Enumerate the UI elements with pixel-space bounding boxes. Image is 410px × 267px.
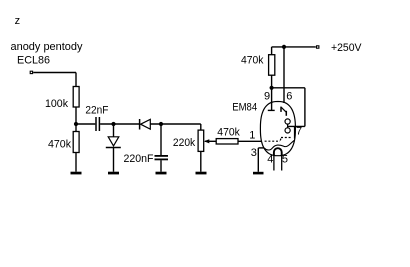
wire pin 9 grid <box>271 88 273 111</box>
potentiometer R3 220k <box>200 124 202 130</box>
input terminal <box>30 71 32 73</box>
wire bus A to C1 <box>76 123 95 125</box>
diode D1 vertical <box>113 124 115 137</box>
diode D2 horizontal <box>139 119 141 130</box>
svg-text:anody pentody: anody pentody <box>11 41 83 53</box>
node B junction <box>111 122 115 126</box>
svg-text:z: z <box>15 15 21 27</box>
cathode curve <box>264 140 294 150</box>
svg-text:5: 5 <box>282 154 288 166</box>
tube U1 envelope <box>260 102 295 156</box>
capacitor C2 220nF <box>160 124 162 155</box>
wire input horizontal <box>33 72 76 74</box>
svg-text:22nF: 22nF <box>85 105 108 117</box>
svg-text:220nF: 220nF <box>124 153 154 165</box>
target screen symbol <box>280 107 282 112</box>
ground D1 <box>108 172 119 175</box>
wire +250V rail <box>272 46 316 48</box>
wire bus C1 to D2 <box>100 123 140 125</box>
resistor R5 470k top <box>271 47 273 55</box>
svg-text:+250V: +250V <box>331 42 362 54</box>
svg-text:EM84: EM84 <box>232 102 257 114</box>
resistor R4 470k mid <box>216 139 238 144</box>
svg-text:470k: 470k <box>217 126 240 138</box>
wire 100k to bus <box>75 107 77 124</box>
resistor R2 470k left <box>75 124 77 132</box>
wire input corner down <box>75 73 77 87</box>
heater arch <box>274 148 282 155</box>
svg-text:470k: 470k <box>48 138 71 150</box>
node A junction <box>74 122 78 126</box>
wiper arrow <box>205 140 216 142</box>
ground R3 <box>196 172 207 175</box>
internal screen dashed line <box>265 140 280 142</box>
svg-text:1: 1 <box>249 130 255 142</box>
node D junction on rail <box>282 45 286 49</box>
pin 7 lead <box>294 126 296 138</box>
node E junction anode <box>270 86 274 90</box>
svg-text:7: 7 <box>296 125 302 137</box>
resistor R1 100k <box>73 87 79 108</box>
ground C2 <box>156 172 167 175</box>
heater pin 4 lead <box>273 155 275 171</box>
wire anode link <box>272 87 305 89</box>
deflection electrodes circles <box>285 119 290 124</box>
svg-text:470k: 470k <box>241 55 264 67</box>
capacitor C1 22nF <box>95 117 97 131</box>
wire pin6 drop <box>283 47 285 103</box>
ground tube <box>253 172 264 175</box>
svg-text:100k: 100k <box>45 98 68 110</box>
ground R2 <box>71 172 82 175</box>
svg-text:9: 9 <box>264 90 270 102</box>
wire D2 to node C <box>150 123 201 125</box>
svg-text:4: 4 <box>267 154 273 166</box>
svg-text:220k: 220k <box>173 137 196 149</box>
terminal +250V <box>317 46 319 48</box>
svg-text:6: 6 <box>286 90 292 102</box>
svg-text:3: 3 <box>251 147 257 159</box>
node C junction <box>159 122 163 126</box>
svg-text:ECL86: ECL86 <box>17 54 50 66</box>
heater pin 5 lead <box>281 155 283 171</box>
wire pin 3 cathode <box>258 147 264 149</box>
wire R4 to pin 1 <box>238 140 262 142</box>
